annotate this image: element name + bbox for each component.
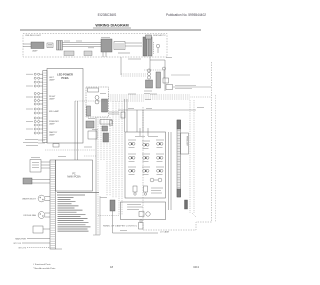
svg-text:Publication No. 5995544402: Publication No. 5995544402 bbox=[166, 13, 206, 17]
svg-text:EI23BC36IS: EI23BC36IS bbox=[98, 13, 117, 17]
svg-text:FREEZER: FREEZER bbox=[186, 136, 188, 146]
svg-text:MAIN PWR: MAIN PWR bbox=[15, 237, 26, 240]
svg-text:PCBA: PCBA bbox=[61, 76, 68, 80]
svg-text:PANEL OF DAMPER CONTROL: PANEL OF DAMPER CONTROL bbox=[103, 225, 138, 228]
svg-text:0413: 0413 bbox=[193, 265, 199, 269]
svg-text:CEILING LIGHT: CEILING LIGHT bbox=[25, 35, 41, 37]
svg-text:LAMP: LAMP bbox=[49, 79, 55, 82]
svg-text:MID LAMP: MID LAMP bbox=[49, 110, 60, 113]
svg-text:MAIN PCBA: MAIN PCBA bbox=[67, 176, 81, 179]
svg-text:FRIDGE FAN: FRIDGE FAN bbox=[24, 214, 37, 217]
svg-text:LAMP: LAMP bbox=[49, 98, 55, 101]
svg-text:LAMP: LAMP bbox=[49, 123, 55, 126]
svg-text:18: 18 bbox=[110, 265, 114, 269]
svg-text:NTC FF: NTC FF bbox=[14, 243, 22, 245]
svg-text:WIRING DIAGRAM: WIRING DIAGRAM bbox=[95, 24, 128, 28]
svg-text:LAMP: LAMP bbox=[32, 50, 38, 53]
svg-text:LAMP: LAMP bbox=[49, 134, 55, 137]
svg-text:WATER INLET: WATER INLET bbox=[22, 197, 36, 200]
svg-text:* Non-Accessible Parts: * Non-Accessible Parts bbox=[33, 267, 56, 270]
svg-text:DISPLAY PC: DISPLAY PC bbox=[153, 34, 166, 37]
svg-text:NTC FZ: NTC FZ bbox=[19, 247, 27, 249]
svg-text:# Functional Parts: # Functional Parts bbox=[33, 263, 52, 266]
svg-text:LO CASE: LO CASE bbox=[160, 230, 170, 233]
